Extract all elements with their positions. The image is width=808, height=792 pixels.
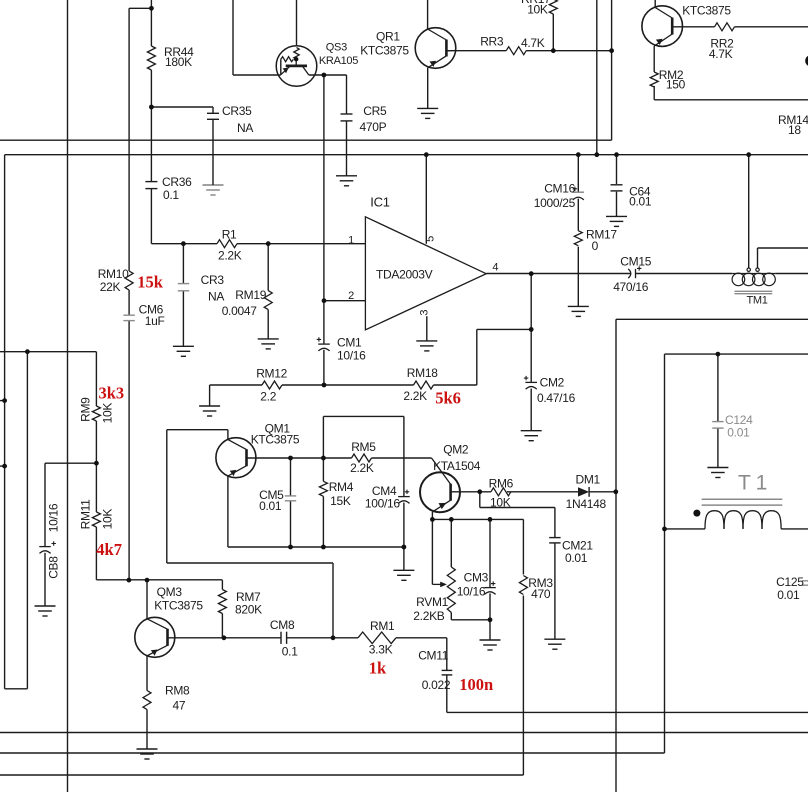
svg-text:10/16: 10/16 bbox=[337, 348, 366, 362]
svg-text:0.01: 0.01 bbox=[259, 499, 282, 513]
svg-text:2.2K: 2.2K bbox=[350, 461, 374, 475]
svg-text:R1: R1 bbox=[222, 227, 237, 241]
svg-text:15k: 15k bbox=[137, 272, 164, 291]
svg-text:0.01: 0.01 bbox=[629, 195, 652, 209]
svg-text:4.7K: 4.7K bbox=[521, 36, 545, 50]
svg-text:QM2: QM2 bbox=[443, 443, 469, 457]
svg-text:2.2K: 2.2K bbox=[403, 389, 427, 403]
svg-text:DM1: DM1 bbox=[576, 472, 601, 486]
svg-text:10/16: 10/16 bbox=[47, 503, 61, 532]
svg-text:2: 2 bbox=[348, 290, 354, 302]
svg-text:KRA105: KRA105 bbox=[319, 55, 358, 67]
svg-text:2.2KB: 2.2KB bbox=[413, 609, 444, 623]
svg-text:RM5: RM5 bbox=[351, 440, 376, 454]
svg-text:1k: 1k bbox=[369, 658, 387, 677]
svg-text:KTC3875: KTC3875 bbox=[154, 598, 203, 612]
svg-text:RM4: RM4 bbox=[329, 480, 354, 494]
svg-text:0: 0 bbox=[592, 239, 599, 253]
svg-text:IC1: IC1 bbox=[370, 195, 389, 210]
svg-text:RVM1: RVM1 bbox=[416, 595, 449, 609]
svg-text:RM9: RM9 bbox=[79, 397, 93, 422]
svg-text:CM8: CM8 bbox=[270, 618, 295, 632]
svg-text:0.01: 0.01 bbox=[565, 551, 588, 565]
svg-text:3.3K: 3.3K bbox=[369, 642, 393, 656]
svg-text:1: 1 bbox=[348, 234, 354, 246]
svg-text:KTC3875: KTC3875 bbox=[360, 44, 409, 58]
svg-text:CR36: CR36 bbox=[162, 175, 192, 189]
svg-text:TM1: TM1 bbox=[747, 294, 768, 306]
svg-text:TDA2003V: TDA2003V bbox=[376, 267, 433, 281]
svg-text:KTA1504: KTA1504 bbox=[433, 459, 481, 473]
svg-text:CR3: CR3 bbox=[201, 273, 225, 287]
svg-text:4k7: 4k7 bbox=[96, 540, 122, 559]
svg-text:5: 5 bbox=[425, 236, 437, 242]
svg-text:CR35: CR35 bbox=[222, 104, 252, 118]
svg-text:RM8: RM8 bbox=[165, 683, 190, 697]
svg-text:1N4148: 1N4148 bbox=[566, 497, 607, 511]
svg-text:QM3: QM3 bbox=[157, 585, 183, 599]
svg-text:RM12: RM12 bbox=[256, 366, 287, 380]
svg-text:NA: NA bbox=[208, 289, 224, 303]
svg-text:10K: 10K bbox=[527, 3, 548, 17]
svg-text:QR1: QR1 bbox=[376, 30, 400, 44]
svg-text:150: 150 bbox=[666, 78, 686, 92]
svg-text:4.7K: 4.7K bbox=[709, 47, 733, 61]
svg-text:10K: 10K bbox=[100, 403, 114, 424]
svg-text:820K: 820K bbox=[235, 602, 262, 616]
svg-text:KTC3875: KTC3875 bbox=[682, 4, 731, 18]
svg-text:3: 3 bbox=[419, 310, 431, 316]
svg-text:0.47/16: 0.47/16 bbox=[537, 391, 576, 405]
svg-text:0.022: 0.022 bbox=[422, 678, 451, 692]
svg-text:4: 4 bbox=[492, 261, 498, 273]
svg-text:10/16: 10/16 bbox=[457, 584, 486, 598]
svg-text:5k6: 5k6 bbox=[435, 388, 461, 407]
svg-text:CM2: CM2 bbox=[540, 375, 565, 389]
svg-text:RM18: RM18 bbox=[407, 366, 438, 380]
svg-text:RM19: RM19 bbox=[235, 288, 266, 302]
svg-text:470/16: 470/16 bbox=[613, 280, 649, 294]
svg-text:CM11: CM11 bbox=[418, 648, 449, 662]
svg-text:0.1: 0.1 bbox=[282, 644, 298, 658]
svg-text:10K: 10K bbox=[100, 509, 114, 530]
svg-text:100n: 100n bbox=[459, 675, 493, 694]
svg-text:CM3: CM3 bbox=[464, 570, 489, 584]
svg-text:RM11: RM11 bbox=[79, 499, 93, 530]
svg-text:2.2K: 2.2K bbox=[218, 249, 242, 263]
svg-text:RM6: RM6 bbox=[489, 476, 514, 490]
svg-text:1000/25: 1000/25 bbox=[534, 196, 576, 210]
svg-text:470: 470 bbox=[531, 587, 551, 601]
svg-text:T 1: T 1 bbox=[738, 472, 767, 495]
svg-text:RR3: RR3 bbox=[480, 35, 504, 49]
svg-text:22K: 22K bbox=[100, 280, 121, 294]
svg-text:47: 47 bbox=[173, 698, 186, 712]
svg-text:KTC3875: KTC3875 bbox=[251, 432, 300, 446]
svg-text:CM16: CM16 bbox=[544, 181, 575, 195]
svg-text:0.01: 0.01 bbox=[777, 588, 800, 602]
svg-text:RM1: RM1 bbox=[370, 619, 395, 633]
svg-text:RM10: RM10 bbox=[98, 267, 129, 281]
svg-text:3k3: 3k3 bbox=[99, 383, 125, 402]
svg-text:1uF: 1uF bbox=[145, 314, 165, 328]
svg-text:NA: NA bbox=[237, 121, 253, 135]
svg-text:0.01: 0.01 bbox=[727, 426, 750, 440]
svg-text:CB8: CB8 bbox=[47, 556, 61, 579]
svg-text:180K: 180K bbox=[165, 55, 192, 69]
svg-text:C125: C125 bbox=[776, 575, 804, 589]
svg-text:470P: 470P bbox=[360, 120, 387, 134]
svg-text:10K: 10K bbox=[490, 495, 511, 509]
svg-text:0.0047: 0.0047 bbox=[222, 304, 258, 318]
svg-text:CR5: CR5 bbox=[363, 104, 387, 118]
svg-text:15K: 15K bbox=[330, 494, 351, 508]
svg-text:0.1: 0.1 bbox=[163, 188, 179, 202]
svg-text:100/16: 100/16 bbox=[365, 497, 401, 511]
svg-text:CM15: CM15 bbox=[620, 255, 651, 269]
svg-text:18: 18 bbox=[788, 123, 801, 137]
svg-text:QS3: QS3 bbox=[326, 42, 347, 54]
svg-text:2.2: 2.2 bbox=[260, 389, 276, 403]
